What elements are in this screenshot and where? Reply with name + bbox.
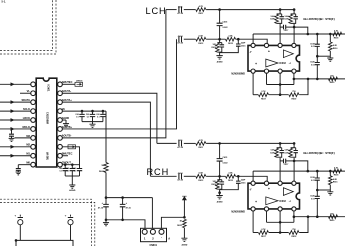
RCH row2 wire c: [206, 175, 225, 177]
svg-text:4.7K: 4.7K: [334, 30, 339, 33]
svg-text:+: +: [268, 49, 270, 53]
DAC left pin 1: [31, 82, 36, 87]
svg-text:IC602: IC602: [279, 200, 286, 203]
wire AOUTB- to LCH row1: [62, 10, 166, 138]
LCH op-amp bottom pin 7: [278, 69, 282, 73]
capacitor C607 CMOUT bank: [79, 165, 81, 169]
LCH junction output/col2: [329, 33, 332, 36]
RCH junction row1/fbA: [279, 142, 282, 145]
DAC left pin 3: [31, 100, 36, 105]
capacitor C602 on M0 line: [17, 165, 19, 169]
wire left row RST: [0, 83, 31, 85]
RCH row2 wire to pin2: [236, 176, 268, 181]
wire 1K to ground: [183, 228, 185, 238]
junction VA cap 3: [102, 110, 105, 113]
svg-text:5-1.: 5-1.: [2, 0, 7, 4]
board-edge box bottom-left (cut off): [16, 240, 73, 246]
rail below CMOUT caps: [65, 175, 79, 177]
DAC right pin 19: [58, 91, 63, 96]
svg-text:C60: C60: [73, 168, 76, 170]
RCH pin8 riser down: [293, 211, 295, 222]
junction CMOUT 2: [71, 163, 74, 166]
svg-text:C620: C620: [310, 62, 315, 64]
ground mute branch: [181, 238, 187, 241]
wire AMUTEC row: [62, 83, 75, 85]
RCH op-amp top pin 4: [292, 181, 296, 185]
wire arrow flag down: [183, 200, 185, 217]
LCH junction row1/inter-cap: [218, 8, 221, 11]
LCH 560 output wire: [294, 78, 345, 80]
svg-text:0.1: 0.1: [67, 171, 70, 173]
RCH row2 wire a: [150, 175, 176, 177]
svg-text:+: +: [268, 187, 270, 191]
svg-text:CXD2586R: CXD2586R: [46, 112, 49, 124]
LCH junction pin8/560-wire: [293, 78, 296, 81]
svg-text:GH-4872D(4)B : STD(F): GH-4872D(4)B : STD(F): [303, 17, 335, 21]
RCH junction row1/fbB: [293, 142, 296, 145]
ground below C601: [11, 136, 13, 138]
RCH row1 wire b: [184, 142, 196, 144]
ground decoupling: [105, 220, 107, 223]
LCH col1 capacitor lower: [316, 56, 318, 62]
LCH col1 mid junction: [316, 55, 319, 58]
resistor R611 LCH row1 4.7K: [196, 8, 206, 12]
svg-text:4.7-50: 4.7-50: [177, 179, 184, 182]
svg-text:0.01: 0.01: [311, 180, 315, 182]
LCH op-amp A triangle: [283, 50, 293, 58]
ground RCH col2: [329, 190, 331, 192]
capacitor C605 CMOUT bank: [64, 165, 66, 169]
svg-text:AGND: AGND: [69, 189, 76, 192]
svg-text:2.7K: 2.7K: [261, 91, 266, 93]
junction decoupling bottom left: [105, 219, 108, 222]
svg-text:+: +: [65, 213, 67, 217]
RCH col1 capacitor upper: [316, 171, 318, 178]
rail below VA caps: [82, 121, 103, 123]
svg-text:M2: M2: [26, 143, 30, 147]
RCH bottom wire riser: [299, 217, 308, 233]
svg-text:C618: C618: [310, 177, 315, 179]
wire left row M1: [0, 155, 31, 157]
LCH op-amp B triangle: [266, 59, 278, 67]
wire VA rail down 2: [105, 173, 107, 198]
svg-text:0.022: 0.022: [223, 27, 229, 29]
RCH col1 capacitor lower: [316, 190, 318, 196]
svg-text:C616: C616: [241, 45, 246, 47]
capacitor C605 VA decoupling: [102, 111, 104, 114]
svg-text:C617: C617: [284, 30, 289, 32]
svg-text:4.7-50: 4.7-50: [177, 42, 184, 45]
DAC right pin 12: [58, 153, 63, 158]
svg-text:8.2K: 8.2K: [333, 45, 338, 47]
svg-text:MCLK: MCLK: [23, 125, 31, 129]
RCH merge below row2: [217, 189, 221, 193]
svg-text:C60: C60: [86, 114, 89, 116]
RCH junction row2 left: [218, 175, 221, 178]
resistor LCH 10K below row2: [219, 39, 221, 42]
RCH junction 560/col1: [316, 215, 319, 218]
capacitor C604 VA decoupling: [92, 111, 94, 114]
capacitor LCH below row2 parallel: [221, 43, 223, 45]
dashed enclosure bottom-left (double dashed border): [0, 199, 95, 246]
RCH op-amp bottom pin 5: [251, 207, 255, 211]
svg-text:3.3K: 3.3K: [228, 36, 233, 38]
svg-text:5.6K: 5.6K: [271, 150, 276, 152]
RCH junction row2 right: [237, 175, 240, 178]
wire VA rail down: [105, 111, 107, 162]
LCH mid wire: [267, 84, 294, 86]
junction VA cap 2: [91, 110, 94, 113]
LCH pin7 riser down: [279, 73, 281, 95]
RCH row2 wire b: [184, 175, 196, 177]
LCH op-amp top pin 2: [264, 43, 268, 47]
capacitor LCH at row2 right column: [237, 39, 239, 44]
svg-text:5.6K: 5.6K: [285, 150, 290, 152]
wire left row M2: [0, 146, 31, 148]
svg-text:AMUTEC: AMUTEC: [62, 81, 73, 84]
svg-text:LCH: LCH: [146, 6, 167, 16]
resistor R601 1K vertical: [104, 163, 108, 173]
svg-text:47-16: 47-16: [98, 207, 104, 210]
svg-text:+: +: [14, 213, 16, 217]
jumper JW602 on pin8 row: [68, 145, 76, 149]
RCH pin1 riser: [252, 171, 254, 181]
RCH bottom wire with feedback resistors: [253, 232, 258, 234]
LCH junction row1/fbB: [293, 8, 296, 11]
electrolytic capacitor C631 (bottom-left): [18, 215, 23, 218]
wire left row VL: [20, 92, 31, 94]
svg-text:VL: VL: [27, 89, 31, 93]
svg-text:M0: M0: [26, 161, 30, 165]
RCH junction row1/inter-cap: [218, 142, 221, 145]
capacitor C601 on MCLK line: [11, 129, 13, 134]
resistor LCH row2 5.6K: [196, 37, 206, 41]
capacitor LCH inter-row 0.022: [219, 10, 221, 24]
RCH row1 wire c: [206, 142, 294, 144]
DAC right pin 18: [58, 100, 63, 105]
LCH bottom wire b: [269, 94, 289, 96]
CN601 pin 1 circle: [142, 229, 147, 234]
svg-text:AOUTA+: AOUTA+: [62, 99, 73, 102]
resistor RCH row2 3.3K: [226, 174, 236, 178]
arrowhead MCLK: [11, 127, 15, 131]
svg-text:C616: C616: [241, 182, 246, 184]
RCH pin5 riser down: [252, 211, 254, 233]
junction VA cap 1: [81, 110, 84, 113]
svg-text:C618: C618: [310, 43, 315, 45]
svg-text:M1: M1: [26, 152, 30, 156]
DAC right pin 13: [58, 144, 63, 149]
svg-text:0.01: 0.01: [311, 46, 315, 48]
DAC left pin 10: [31, 162, 36, 167]
junction VA rail / decoupling: [105, 196, 108, 199]
electrolytic capacitor C632 (bottom-left): [68, 215, 73, 218]
DAC left pin 6: [31, 127, 36, 132]
capacitor RCH below row2 parallel: [221, 180, 223, 182]
svg-text:C620: C620: [310, 196, 315, 198]
LCH link col1-col2: [317, 55, 330, 57]
DAC right pin 20: [58, 82, 63, 87]
svg-text:SDATA: SDATA: [21, 98, 30, 102]
svg-text:220P: 220P: [241, 43, 246, 45]
svg-text:AGND: AGND: [62, 117, 70, 120]
electrolytic C623 decoupling: [121, 196, 124, 199]
junction board-edge corner: [15, 239, 18, 242]
svg-text:560: 560: [330, 213, 333, 215]
svg-text:LRCK: LRCK: [23, 116, 30, 120]
capacitor C611 LCH row2: [179, 36, 182, 42]
resistor RCH 750: [289, 231, 299, 235]
RCH link col1-col2: [317, 189, 330, 191]
wire C632 to board edge: [70, 225, 72, 241]
ground CMOUT bank: [71, 176, 73, 185]
LCH junction bottom/pin7: [279, 93, 282, 96]
svg-text:5.6K: 5.6K: [285, 16, 290, 18]
RCH row1 wire a: [157, 142, 177, 144]
svg-text:0.01: 0.01: [311, 198, 315, 200]
svg-text:R601: R601: [99, 171, 105, 173]
op-amp IC602 LCH body: [248, 45, 300, 71]
LCH op-amp top pin 4: [292, 43, 296, 47]
wire C631 to board edge: [19, 225, 21, 241]
resistor LCH row2 3.3K: [226, 37, 236, 41]
capacitor RCH bridge between feedback columns: [280, 160, 283, 162]
svg-text:R616: R616: [211, 47, 216, 49]
RCH col1 mid junction: [316, 189, 319, 192]
svg-text:5.6K: 5.6K: [271, 16, 276, 18]
svg-text:4.7K: 4.7K: [199, 5, 204, 8]
svg-text:0.1: 0.1: [97, 117, 100, 119]
LCH jog from feedback colB to output wire: [293, 26, 296, 29]
LCH col2 resistor 8.2K: [329, 34, 331, 42]
svg-text:0.1: 0.1: [60, 171, 63, 173]
svg-text:VA: VA: [62, 108, 65, 111]
DAC right pin 16: [58, 118, 63, 123]
CN601 pin 3 circle: [159, 229, 164, 234]
wire left row SCLK: [0, 110, 31, 112]
svg-text:120P: 120P: [284, 153, 289, 155]
RCH junction pin8/560-wire: [293, 215, 296, 218]
LCH bottom wire with feedback resistors: [253, 94, 258, 96]
LCH junction 560/col1: [316, 78, 319, 81]
op-amp IC603 RCH body: [248, 183, 300, 209]
wire AOUTB+ to LCH row2: [62, 39, 176, 129]
svg-text:8.2K: 8.2K: [333, 179, 338, 181]
svg-text:JW601: JW601: [76, 81, 83, 83]
net arrow flag (up arrow): [182, 196, 186, 200]
LCH op-amp bottom pin 6: [264, 69, 268, 73]
RCH junction mid/pin7: [279, 221, 282, 224]
wire left row LRCK: [0, 119, 31, 121]
svg-text:GH-4872D(4)B : STD(F): GH-4872D(4)B : STD(F): [303, 151, 335, 155]
LCH op-amp bottom pin 8: [292, 69, 296, 73]
LCH row1 wire c: [206, 9, 294, 11]
capacitor C611 LCH row1: [179, 7, 182, 13]
LCH op-amp top pin 3: [278, 43, 282, 47]
RCH extra junction below row2: [218, 191, 221, 194]
RCH op-amp bottom pin 8: [292, 207, 296, 211]
resistor LCH 560: [329, 77, 338, 81]
arrowhead row1: [11, 82, 15, 86]
svg-text:C60: C60: [66, 168, 69, 170]
resistor RCH 10K below row2: [219, 176, 221, 179]
LCH junction jog/output: [307, 33, 310, 36]
RCH junction output/col1: [316, 170, 319, 173]
svg-text:0.1: 0.1: [76, 117, 79, 119]
svg-text:AGND: AGND: [217, 201, 223, 204]
LCH row2 wire c: [206, 38, 225, 40]
LCH col1 capacitor upper: [316, 34, 318, 44]
LCH pin1 riser: [252, 34, 254, 43]
LCH op-amp bottom pin 5: [251, 69, 255, 73]
RCH pin7 riser down: [279, 211, 281, 233]
svg-text:47-16: 47-16: [126, 207, 132, 210]
RCH feedback network colA (R parallel C): [279, 143, 281, 147]
RCH op-amp A triangle: [283, 188, 293, 196]
svg-text:0.01: 0.01: [311, 65, 315, 67]
svg-text:4.7-50: 4.7-50: [177, 146, 184, 149]
RCH junction jog/output: [307, 170, 310, 173]
svg-text:C60: C60: [75, 114, 78, 116]
wire decoupling bottom to connector pin1: [106, 220, 145, 230]
svg-text:R616: R616: [333, 182, 338, 184]
svg-text:NJM2068MD: NJM2068MD: [231, 212, 245, 214]
LCH row2 wire b: [184, 38, 196, 40]
wire CMOUT row: [62, 164, 79, 166]
svg-text:4.7-50: 4.7-50: [177, 12, 184, 15]
wire VA row: [62, 110, 106, 112]
ground below C602: [17, 170, 19, 172]
svg-text:R618: R618: [334, 174, 339, 176]
RCH op-amp top pin 2: [264, 181, 268, 185]
wire left row SDATA: [0, 101, 31, 103]
capacitor RCH at row2 right column: [237, 176, 239, 181]
svg-text:AOUTB-: AOUTB-: [62, 135, 72, 138]
wire AOUTA- to RCH row1: [62, 93, 157, 143]
ground LCH below row2: [216, 56, 222, 59]
RCH col2 resistor 8.2K: [329, 171, 331, 176]
LCH op-amp top pin 1: [251, 43, 255, 47]
LCH junction 560/riser: [307, 78, 310, 81]
RCH op-amp bottom pin 7: [278, 207, 282, 211]
RCH junction bottom/pin7: [279, 231, 282, 234]
capacitor LCH bridge between feedback columns: [280, 26, 283, 28]
DAC left pin 7: [31, 136, 36, 141]
resistor RCH 2.7K: [259, 231, 269, 235]
LCH pin5 riser down: [252, 73, 254, 95]
svg-text:CMOUT: CMOUT: [62, 161, 72, 164]
LCH junction output/col1: [316, 33, 319, 36]
arrowhead SCLK: [11, 109, 15, 113]
arrowhead LRCK: [11, 118, 15, 122]
svg-text:C60: C60: [59, 168, 62, 170]
svg-text:R616: R616: [333, 48, 338, 50]
LCH merge below row2: [217, 52, 221, 56]
RCH junction output/col2: [329, 170, 332, 173]
svg-text:4.7K: 4.7K: [199, 139, 204, 142]
svg-text:+: +: [255, 200, 257, 204]
svg-text:0.022: 0.022: [223, 162, 229, 164]
RCH op-amp top pin 1: [251, 181, 255, 185]
RCH feedback network colB (R parallel C): [293, 143, 295, 147]
capacitor C603 VA decoupling: [81, 111, 83, 114]
RCH output wire: [253, 170, 345, 172]
ground RCH below row2: [216, 196, 222, 199]
LCH bottom wire riser: [299, 79, 308, 95]
junction decoupling bottom right: [121, 219, 124, 222]
wire AOUTA+ to RCH row2: [62, 102, 150, 176]
LCH feedback network colB (R parallel C): [293, 10, 295, 14]
svg-text:2.7K: 2.7K: [261, 229, 266, 231]
resistor RCH output 4.7K: [333, 169, 342, 173]
svg-text:AGND: AGND: [217, 61, 223, 64]
LCH row1 wire b: [184, 9, 196, 11]
RCH op-amp top pin 3: [278, 181, 282, 185]
svg-text:R618: R618: [334, 37, 339, 39]
RCH bottom wire b: [269, 232, 289, 234]
capacitor RCH inter-row 0.022: [219, 143, 221, 158]
svg-text:120P: 120P: [270, 19, 275, 21]
svg-text:NJM2068MD: NJM2068MD: [231, 74, 245, 76]
svg-text:BMUTEC: BMUTEC: [62, 153, 73, 156]
LCH row2 wire a: [176, 38, 178, 40]
RCH 560 output wire: [294, 216, 345, 218]
DAC right pin 11: [58, 162, 63, 167]
svg-text:120P: 120P: [270, 153, 275, 155]
LCH junction row2 right: [237, 38, 240, 41]
electrolytic C621 decoupling: [105, 198, 107, 205]
resistor LCH 750: [289, 93, 299, 97]
DAC left pin 5: [31, 118, 36, 123]
wire left row MCLK: [0, 128, 31, 130]
svg-text:C60: C60: [96, 114, 99, 116]
DAC right pin 15: [58, 127, 63, 132]
svg-text:IC601: IC601: [47, 85, 51, 92]
LCH feedback network colA (R parallel C): [279, 10, 281, 14]
DAC left pin 8: [31, 144, 36, 149]
connector CN601 body: [141, 228, 167, 241]
wire pin8 row to CMOUT cap bank: [62, 147, 79, 167]
DAC left pin 2: [31, 91, 36, 96]
svg-text:A: A: [168, 237, 170, 241]
capacitor C612 RCH row1: [179, 140, 182, 146]
svg-text:120P: 120P: [284, 19, 289, 21]
DAC right pin 17: [58, 109, 63, 114]
RCH jog from feedback colB to output wire: [293, 160, 296, 163]
LCH row2 wire to pin2: [236, 39, 268, 43]
capacitor C606 CMOUT bank: [71, 165, 73, 169]
wire mute node to connector pin3: [161, 217, 184, 229]
dashed enclosure top-left (double dashed border): [0, 0, 56, 54]
svg-text:·: ·: [161, 236, 162, 240]
LCH junction row1/fbA: [279, 8, 282, 11]
wire to connector pin2: [151, 198, 153, 230]
resistor LCH output 4.7K: [333, 32, 342, 36]
wire decoupling top: [106, 197, 152, 199]
svg-text:(M-2M): (M-2M): [46, 152, 49, 160]
svg-text:SCLK: SCLK: [23, 107, 30, 111]
jumper JW601 on AMUTEC: [75, 82, 83, 86]
ground VA decoupling: [92, 122, 94, 125]
DAC left pin 4: [31, 109, 36, 114]
arrowhead M1: [11, 154, 15, 158]
wire left row M3: [15, 137, 31, 139]
svg-text:-Y: -Y: [249, 50, 252, 54]
RCH pin6 riser down: [266, 211, 268, 222]
svg-text:C617: C617: [284, 164, 289, 166]
junction mute node: [183, 216, 186, 219]
svg-text:AOUTB+: AOUTB+: [62, 126, 73, 129]
